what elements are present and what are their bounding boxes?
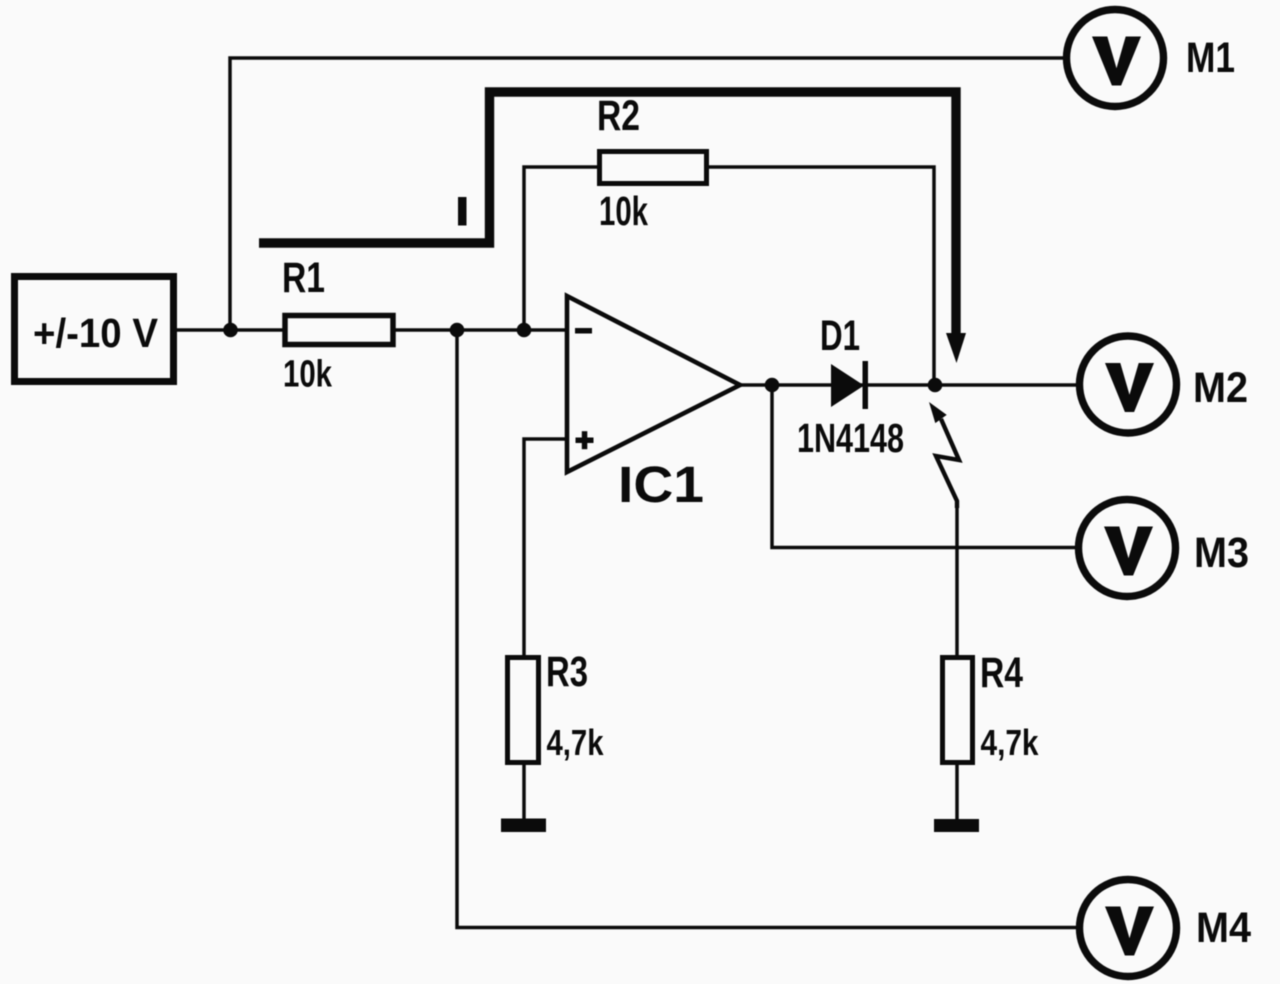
wire node A up and right to M1 — [230, 58, 1064, 330]
svg-text:R3: R3 — [546, 648, 588, 696]
op-amp IC1 — [567, 296, 740, 513]
wire op-amp noninverting input to R3 — [524, 439, 567, 657]
wire R1 to op-amp inverting input — [395, 328, 567, 332]
ground below R4 — [934, 819, 979, 832]
svg-text:10k: 10k — [599, 188, 648, 234]
svg-text:R1: R1 — [282, 254, 325, 302]
diode D1 — [797, 312, 904, 461]
svg-text:M3: M3 — [1194, 529, 1249, 577]
node B junction dot — [450, 323, 465, 338]
wire R2 left lead down to inverting node — [524, 167, 597, 330]
wire source to R1 — [177, 328, 283, 332]
voltmeter M3 — [1079, 500, 1250, 597]
wire output node down and right to M3 — [772, 385, 1076, 548]
svg-text:D1: D1 — [820, 312, 860, 360]
svg-text:M4: M4 — [1196, 904, 1251, 952]
voltmeter M1 — [1067, 10, 1236, 107]
ground below R3 — [501, 819, 546, 833]
resistor R3 — [508, 648, 605, 763]
svg-text:R4: R4 — [980, 649, 1023, 697]
resistor R1 — [282, 254, 393, 396]
plus input symbol — [576, 438, 594, 444]
svg-text:1N4148: 1N4148 — [797, 415, 904, 461]
label I — [458, 197, 467, 226]
wire node B down and right to M4 — [457, 330, 1077, 928]
wire op-amp output to M2 — [740, 383, 1077, 387]
voltmeter M2 — [1080, 336, 1249, 433]
svg-text:M1: M1 — [1186, 34, 1235, 82]
minus input symbol — [575, 328, 592, 334]
wire R4 to ground — [955, 763, 959, 820]
wire R3 to ground — [522, 763, 526, 819]
probe zigzag arrow — [929, 402, 959, 508]
resistor R4 — [943, 649, 1040, 763]
svg-text:+/-10 V: +/-10 V — [33, 310, 159, 356]
voltmeter M4 — [1080, 880, 1252, 977]
node E junction dot — [928, 378, 943, 393]
svg-text:IC1: IC1 — [618, 456, 704, 513]
wire zigzag to R4 top — [955, 507, 959, 657]
node D output junction dot — [765, 378, 780, 393]
wire R2 right lead down to output node — [709, 167, 934, 385]
node A junction dot — [223, 323, 238, 338]
source V1 box — [15, 277, 174, 382]
svg-text:10k: 10k — [283, 354, 333, 396]
svg-text:R2: R2 — [597, 92, 640, 140]
svg-text:4,7k: 4,7k — [981, 722, 1040, 763]
svg-text:4,7k: 4,7k — [547, 722, 605, 763]
resistor R2 — [597, 92, 707, 234]
node C junction dot — [517, 323, 532, 338]
current path I thick highlight — [259, 92, 966, 363]
svg-text:M2: M2 — [1193, 364, 1248, 412]
